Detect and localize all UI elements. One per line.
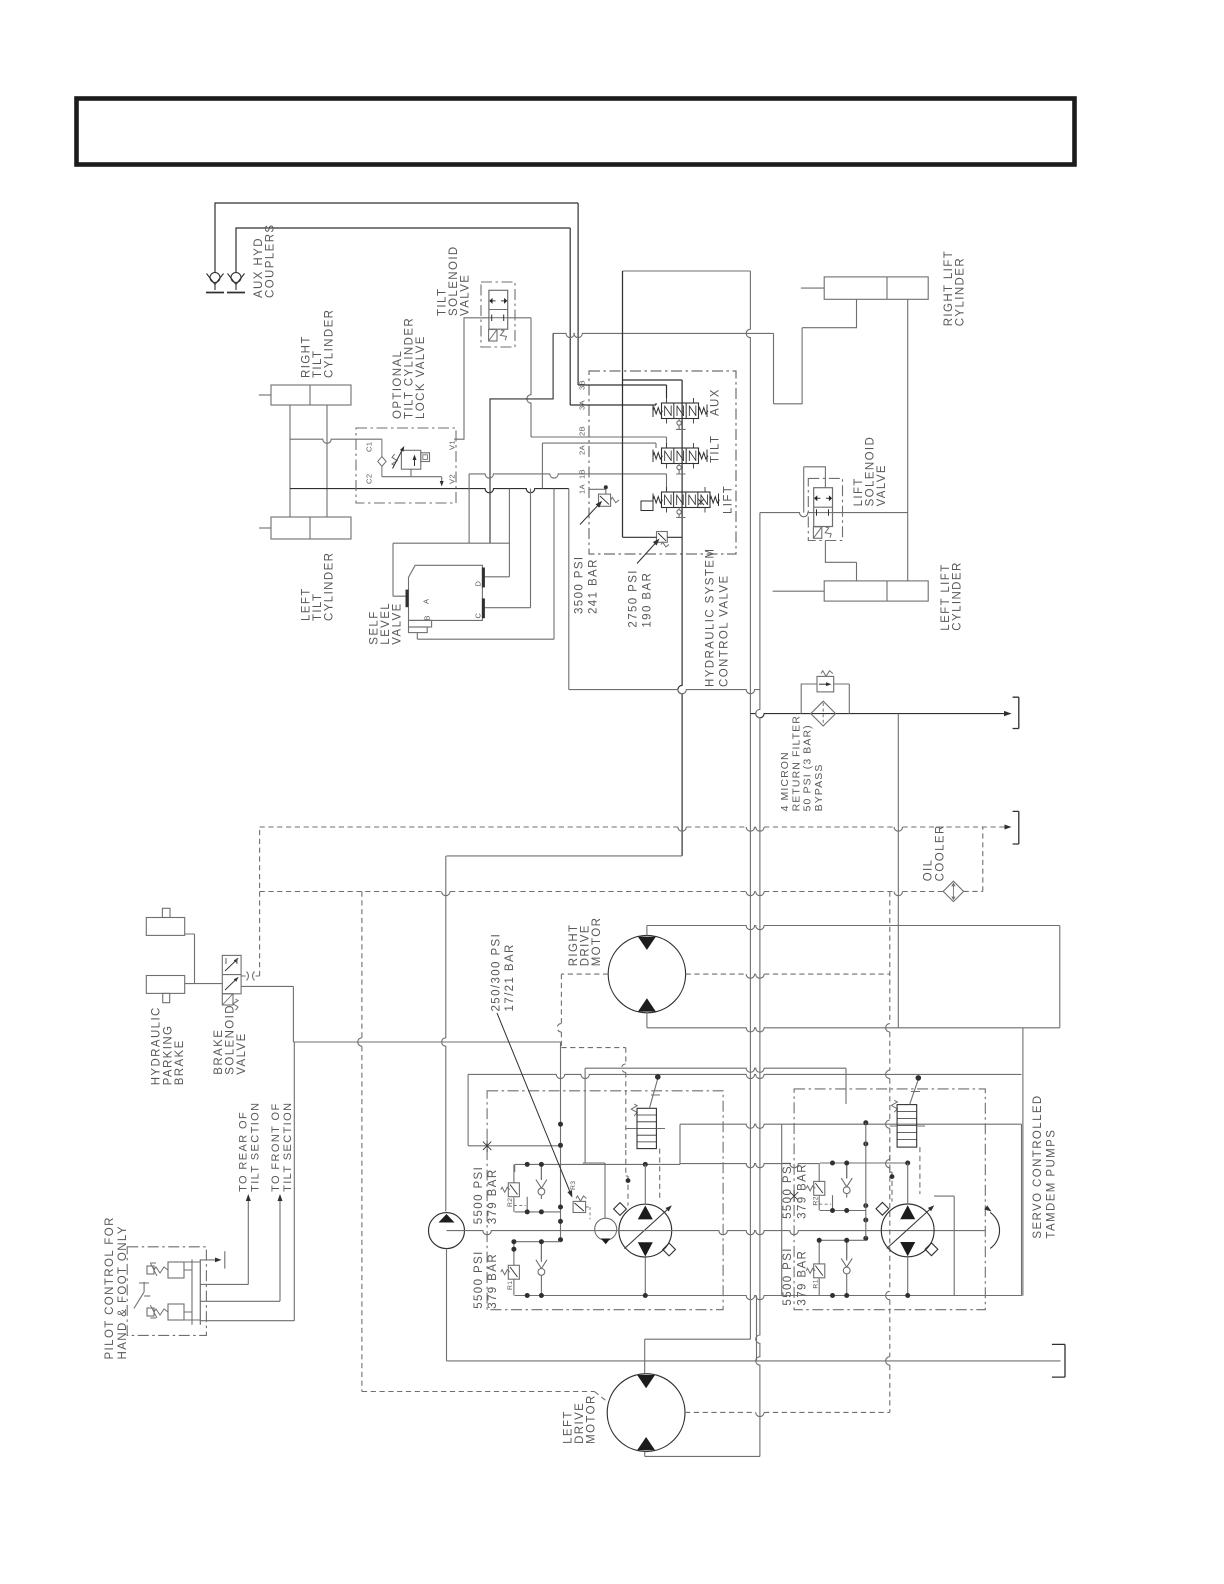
svg-text:4 MICRON: 4 MICRON xyxy=(779,751,791,811)
svg-text:3500 PSI: 3500 PSI xyxy=(574,555,586,614)
wire right drive motor A port xyxy=(647,926,1060,1028)
wire main return line to tank xyxy=(750,714,1010,718)
left pump lower rails xyxy=(514,1242,561,1296)
wire 2A drop xyxy=(541,443,543,489)
left drive motor xyxy=(607,1374,685,1452)
check valve right pump upper xyxy=(841,1163,852,1198)
wire right lift cylinder piston port xyxy=(774,299,857,404)
svg-text:C1: C1 xyxy=(365,441,374,452)
tilt solenoid valve body xyxy=(489,290,508,329)
wire left motor A port xyxy=(644,1339,646,1374)
svg-text:PARKING: PARKING xyxy=(162,1025,174,1086)
tank gallery xyxy=(678,429,682,856)
check valve right pump lower xyxy=(841,1240,852,1280)
pump interconnect line A xyxy=(645,1124,680,1164)
svg-text:LEFT LIFT: LEFT LIFT xyxy=(940,563,952,630)
svg-text:CYLINDER: CYLINDER xyxy=(324,552,336,621)
svg-text:AUX: AUX xyxy=(710,388,722,416)
tilt solenoid actuator xyxy=(489,329,508,341)
right pump servo pilot dashed xyxy=(890,1147,892,1202)
wire self level valve B port loop xyxy=(417,489,554,640)
tank symbol 3 xyxy=(1052,1344,1065,1377)
wire control valve top header xyxy=(623,270,751,272)
svg-text:2750 PSI: 2750 PSI xyxy=(628,569,640,628)
charge pump xyxy=(429,1213,465,1249)
check valve left pump lower xyxy=(536,1242,547,1282)
left lift cylinder xyxy=(773,581,929,601)
svg-text:2A: 2A xyxy=(578,445,587,455)
svg-text:VALVE: VALVE xyxy=(876,464,888,506)
wire lift cylinder rod-side link xyxy=(907,299,909,581)
wire lock valve V1 to tilt solenoid valve xyxy=(454,318,489,439)
wire port 1A into valve xyxy=(589,489,606,494)
wire port 2A into valve xyxy=(542,443,656,448)
spool valve TILT xyxy=(662,448,699,464)
relief valve 2750 PSI xyxy=(623,532,683,547)
svg-text:LEFT: LEFT xyxy=(562,1410,574,1444)
return filter bypass loop xyxy=(801,684,849,714)
svg-text:BRAKE: BRAKE xyxy=(213,1029,225,1075)
right servo link dashed xyxy=(919,1147,921,1194)
svg-text:TILT: TILT xyxy=(312,593,324,621)
svg-text:TO FRONT OF: TO FRONT OF xyxy=(270,1102,282,1192)
oil cooler xyxy=(943,881,963,901)
svg-text:CYLINDER: CYLINDER xyxy=(324,309,336,378)
brake solenoid actuator xyxy=(222,994,238,1010)
return filter bypass relief xyxy=(817,671,834,692)
svg-text:V2: V2 xyxy=(448,474,457,484)
wire tilt cylinder port C1 to lock valve xyxy=(290,439,382,443)
check valve left pump upper xyxy=(536,1164,547,1199)
svg-text:R3: R3 xyxy=(570,1181,577,1191)
svg-text:379 BAR: 379 BAR xyxy=(487,1168,499,1224)
left pump servo pilot dashed xyxy=(626,1150,628,1206)
lift solenoid valve body xyxy=(814,488,833,527)
title box (empty header frame) xyxy=(77,99,1075,165)
svg-text:TILT SECTION: TILT SECTION xyxy=(282,1102,294,1192)
leader 250/300 PSI xyxy=(497,1013,572,1196)
aux hyd coupler 2 xyxy=(227,273,245,293)
lock valve internal wires xyxy=(382,469,442,483)
left tilt cylinder xyxy=(259,517,351,539)
svg-text:OPTIONAL: OPTIONAL xyxy=(392,350,404,419)
svg-text:SOLENOID: SOLENOID xyxy=(224,1004,236,1075)
wire port 3B into valve xyxy=(578,385,666,398)
svg-text:VALVE: VALVE xyxy=(392,602,404,644)
hydraulic system control valve enclosure xyxy=(589,371,736,554)
svg-text:MOTOR: MOTOR xyxy=(586,1394,598,1444)
wire brake solenoid supply xyxy=(241,986,293,1042)
optional tilt cylinder lock valve enclosure xyxy=(356,428,456,503)
svg-text:TILT: TILT xyxy=(437,288,449,316)
svg-text:C2: C2 xyxy=(365,473,374,484)
wire right return riser xyxy=(1022,1028,1024,1296)
wire parking brake to brake solenoid valve xyxy=(195,983,223,985)
svg-text:5500 PSI: 5500 PSI xyxy=(473,1250,485,1309)
hydraulic parking brake xyxy=(146,908,194,1002)
svg-text:1A: 1A xyxy=(578,484,587,494)
svg-text:R2: R2 xyxy=(507,1198,514,1208)
pressure gallery xyxy=(623,271,683,537)
wire lift solenoid bottom port to left lift cylinder xyxy=(825,541,856,581)
wire 3A feed from aux coupler line 2 xyxy=(569,228,571,405)
wire charge pump outlet xyxy=(446,1249,448,1361)
pilot supply tee xyxy=(200,1251,225,1268)
svg-text:HAND & FOOT ONLY: HAND & FOOT ONLY xyxy=(117,1225,129,1359)
svg-text:50 PSI (3 BAR): 50 PSI (3 BAR) xyxy=(802,724,814,811)
right pump servo valve xyxy=(890,1105,925,1148)
wire plug port to servo bus xyxy=(487,1145,560,1147)
svg-text:COOLER: COOLER xyxy=(934,824,946,881)
aux hyd coupler 1 xyxy=(206,273,224,293)
wire control valve right riser xyxy=(746,271,750,1339)
svg-text:SELF: SELF xyxy=(368,610,380,644)
wire brake pilot dashed xyxy=(259,827,261,976)
wire left pump ports xyxy=(644,1164,646,1295)
left main pump xyxy=(619,1204,674,1257)
wire tilt cylinder port C2 work header xyxy=(290,489,569,493)
tilt spool load check xyxy=(677,465,681,469)
wire left motor return riser xyxy=(756,513,760,1457)
svg-text:TILT SECTION: TILT SECTION xyxy=(249,1102,261,1192)
svg-text:D: D xyxy=(474,581,483,587)
relief valve R2 right pump xyxy=(806,1181,831,1204)
wire lift solenoid left port xyxy=(760,513,814,517)
svg-text:CYLINDER: CYLINDER xyxy=(951,561,963,630)
svg-text:SOLENOID: SOLENOID xyxy=(448,245,460,316)
wire top supply line 2 to aux coupler 2 xyxy=(236,228,570,273)
svg-text:RIGHT: RIGHT xyxy=(301,335,313,378)
svg-text:5500 PSI: 5500 PSI xyxy=(782,1247,794,1306)
spool valve LIFT xyxy=(662,492,711,508)
brake pilot restriction xyxy=(247,972,255,981)
lift solenoid actuator xyxy=(813,526,832,538)
spool valve AUX xyxy=(662,403,699,419)
svg-text:R2: R2 xyxy=(812,1196,819,1206)
right tilt cylinder xyxy=(259,385,351,405)
wire bottom return to tank 3 xyxy=(447,1360,1061,1362)
right main pump xyxy=(881,1203,936,1256)
wire self level valve net xyxy=(393,543,509,596)
lift spool load check xyxy=(677,510,681,514)
wire pilot supply from brake valve xyxy=(200,1042,294,1321)
wire servo crossover header xyxy=(585,1068,846,1072)
svg-text:LIFT: LIFT xyxy=(853,477,865,506)
wire filter to cooler riser xyxy=(897,714,899,1028)
left motor case drain to right pump dashed xyxy=(685,1411,890,1413)
svg-text:B: B xyxy=(423,615,432,621)
wire port 3A into valve xyxy=(570,403,656,405)
pump interconnect line B xyxy=(680,1164,819,1168)
svg-text:241 BAR: 241 BAR xyxy=(587,558,599,614)
cooler outlet dashed riser xyxy=(964,827,983,891)
svg-text:LIFT: LIFT xyxy=(723,485,735,514)
svg-text:190 BAR: 190 BAR xyxy=(641,572,653,628)
junction marker left pump xyxy=(483,1140,491,1152)
relief valve R1 right pump xyxy=(806,1264,825,1278)
relief valve 3500 PSI xyxy=(599,494,620,506)
svg-text:HYDRAULIC: HYDRAULIC xyxy=(151,1006,163,1085)
svg-text:2B: 2B xyxy=(578,426,587,436)
svg-text:R1: R1 xyxy=(812,1279,819,1289)
right pump servo actuator diamonds xyxy=(876,1202,889,1215)
case drain return line to tank xyxy=(260,826,1011,828)
wire port 2B into valve xyxy=(531,437,667,447)
svg-text:LOCK VALVE: LOCK VALVE xyxy=(415,335,427,419)
svg-text:TILT: TILT xyxy=(710,435,722,463)
self level valve body xyxy=(407,565,483,632)
wire brake supply header xyxy=(293,1041,560,1043)
wire lift solenoid right port xyxy=(833,512,908,514)
left pump enclosure xyxy=(487,1091,723,1310)
svg-text:CYLINDER: CYLINDER xyxy=(955,257,967,326)
left pump servo spring xyxy=(631,1104,637,1116)
wire tilt solenoid valve right port down to control valve 2B xyxy=(527,318,531,437)
svg-text:HYDRAULIC SYSTEM: HYDRAULIC SYSTEM xyxy=(705,548,717,687)
svg-text:A: A xyxy=(422,598,431,604)
svg-text:SERVO CONTROLLED: SERVO CONTROLLED xyxy=(1032,1094,1044,1238)
svg-text:17/21 BAR: 17/21 BAR xyxy=(504,943,516,1011)
pump bottom rail xyxy=(515,1296,1022,1300)
svg-text:RIGHT: RIGHT xyxy=(568,924,580,967)
wire charge supply riser xyxy=(442,856,446,1212)
svg-text:DRIVE: DRIVE xyxy=(580,924,592,966)
wire lift solenoid top loop xyxy=(804,467,826,513)
svg-text:5500 PSI: 5500 PSI xyxy=(782,1160,794,1219)
wire 3B feed from aux coupler line 1 xyxy=(577,203,579,385)
wire lift header drop to 1B region xyxy=(490,333,553,543)
svg-text:COUPLERS: COUPLERS xyxy=(265,224,277,298)
wire pilot to front tilt section xyxy=(200,1196,280,1301)
left pump upper rails xyxy=(514,1164,645,1212)
left pump servo valve xyxy=(626,1108,665,1148)
lock valve pilot check symbol xyxy=(378,439,386,477)
case drain line into cooler xyxy=(260,891,944,893)
svg-text:379 BAR: 379 BAR xyxy=(487,1253,499,1309)
left motor case drain dashed xyxy=(361,892,363,1392)
pilot reducing valve 2 xyxy=(147,1304,184,1320)
wire charge line through pumps xyxy=(447,1231,986,1235)
gauge circle xyxy=(595,1218,617,1244)
wire right pump outlet to frame xyxy=(934,1196,954,1296)
plug marker x xyxy=(698,499,704,505)
svg-text:MOTOR: MOTOR xyxy=(591,917,603,967)
right lift cylinder xyxy=(801,277,928,299)
right drive motor case drain dashed xyxy=(557,974,626,1150)
wire pilot to rear tilt section xyxy=(200,1196,248,1284)
tank symbol 1 xyxy=(1013,697,1019,728)
wire right drive motor B port xyxy=(646,1013,648,1028)
relief valve B3 left pump xyxy=(573,1196,590,1220)
lift spool float section xyxy=(641,501,653,511)
svg-text:BRAKE: BRAKE xyxy=(174,1039,186,1085)
right drive motor xyxy=(608,935,685,1012)
pilot control lever xyxy=(134,1282,149,1309)
relief valve R1 left pump xyxy=(501,1265,520,1279)
right pump lower rails xyxy=(819,1240,866,1295)
right pump enclosure xyxy=(794,1089,985,1310)
svg-text:TILT: TILT xyxy=(312,350,324,378)
right pump upper rails xyxy=(819,1163,908,1211)
wire port 1B into valve xyxy=(469,474,666,478)
wire bottom return riser xyxy=(756,1296,758,1361)
right pump frame xyxy=(782,1124,1022,1296)
aux spool load check xyxy=(677,421,681,425)
pump rotation arrow xyxy=(990,1212,999,1248)
wire left motor feed header xyxy=(645,1338,751,1340)
svg-text:PILOT CONTROL FOR: PILOT CONTROL FOR xyxy=(104,1216,116,1359)
wire motor return header xyxy=(647,1028,1060,1032)
svg-text:RIGHT LIFT: RIGHT LIFT xyxy=(943,250,955,326)
svg-text:DRIVE: DRIVE xyxy=(574,1402,586,1444)
svg-text:379 BAR: 379 BAR xyxy=(796,1163,808,1219)
svg-text:V1: V1 xyxy=(448,440,457,450)
return filter element xyxy=(811,701,836,726)
svg-text:AUX HYD: AUX HYD xyxy=(253,237,265,298)
wire piston-side link between tilt cylinders xyxy=(326,405,328,517)
svg-text:R1: R1 xyxy=(507,1281,514,1291)
lift solenoid valve enclosure xyxy=(808,478,842,540)
svg-text:5500 PSI: 5500 PSI xyxy=(473,1166,485,1225)
svg-text:RETURN FILTER: RETURN FILTER xyxy=(790,715,802,811)
svg-text:LEVEL: LEVEL xyxy=(380,602,392,645)
svg-text:VALVE: VALVE xyxy=(236,1032,248,1074)
wire charge supply header xyxy=(447,855,683,857)
wire control valve lower frame xyxy=(568,489,570,690)
right pump servo spring xyxy=(891,1100,897,1112)
wire right pump ports xyxy=(907,1163,909,1296)
lock valve relief cartridge xyxy=(392,445,430,469)
svg-text:C: C xyxy=(474,613,483,619)
wire tilt work lines to self level valve xyxy=(482,489,530,608)
wire servo supply riser xyxy=(560,1042,562,1240)
wire rod-side link between tilt cylinders xyxy=(289,405,291,517)
tank symbol 2 xyxy=(1013,811,1019,844)
svg-text:CONTROL VALVE: CONTROL VALVE xyxy=(719,574,731,687)
svg-text:SOLENOID: SOLENOID xyxy=(864,436,876,507)
wire top supply line 1 to aux coupler 1 xyxy=(215,203,578,273)
left pump servo lever xyxy=(649,1078,660,1108)
wire lift circuit header xyxy=(553,333,773,337)
tilt solenoid valve enclosure xyxy=(481,282,515,347)
brake solenoid valve body xyxy=(222,955,241,993)
svg-text:250/300 PSI: 250/300 PSI xyxy=(490,933,502,1012)
svg-text:TO REAR OF: TO REAR OF xyxy=(237,1111,249,1192)
svg-text:TILT CYLINDER: TILT CYLINDER xyxy=(403,317,415,419)
svg-text:379 BAR: 379 BAR xyxy=(796,1250,808,1306)
pilot control enclosure xyxy=(127,1247,206,1336)
relief valve R2 left pump xyxy=(501,1183,526,1206)
svg-text:LEFT: LEFT xyxy=(301,587,313,621)
left pump servo link dashed xyxy=(659,1149,661,1198)
leader line 2750 PSI xyxy=(637,541,658,564)
svg-text:VALVE: VALVE xyxy=(460,274,472,316)
pilot reducing valve 1 xyxy=(147,1262,184,1278)
pilot control manifold xyxy=(184,1259,200,1324)
svg-text:TAMDEM PUMPS: TAMDEM PUMPS xyxy=(1046,1129,1058,1239)
left pump servo actuator diamonds xyxy=(614,1203,627,1216)
svg-text:BYPASS: BYPASS xyxy=(813,764,825,812)
pump outer frame left xyxy=(468,1074,487,1145)
right pump case drain dashed xyxy=(889,892,891,1413)
right pump servo lever xyxy=(910,1079,920,1104)
svg-text:OIL: OIL xyxy=(923,859,935,882)
leader line 3500 PSI xyxy=(580,503,601,525)
wire 1B drop xyxy=(468,474,470,543)
wire left motor B port xyxy=(645,1452,760,1457)
junction marker right pump xyxy=(790,1190,798,1202)
